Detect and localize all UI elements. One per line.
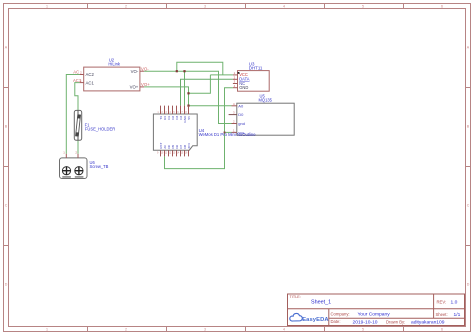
U3 pin DATA stub: [233, 78, 238, 80]
svg-text:Drawn By:: Drawn By:: [386, 319, 405, 324]
svg-text:2: 2: [125, 328, 127, 332]
U4 bottom pin numbers: [157, 152, 188, 155]
svg-text:EasyEDA: EasyEDA: [302, 317, 329, 323]
svg-text:Sheet:: Sheet:: [436, 312, 448, 317]
wire VO+ to MCU 5V pin: [144, 87, 188, 106]
svg-text:5: 5: [362, 328, 364, 332]
svg-text:C: C: [5, 204, 8, 208]
U5 pin D0 stub: [229, 114, 237, 116]
svg-text:6: 6: [441, 5, 443, 9]
svg-text:Your Company: Your Company: [358, 312, 391, 318]
svg-text:VO-: VO-: [141, 66, 149, 71]
wire elevated VO- branch to DHT11 VCC: [177, 62, 223, 75]
U5 pin A0 stub: [232, 105, 237, 107]
junction dot MQ135 vcc branch: [224, 132, 226, 134]
wire branch to MQ135 vcc: [225, 131, 232, 133]
fuse F1 holder body: [74, 110, 81, 140]
U4 bottom pin names: [159, 143, 191, 149]
svg-text:3V3: 3V3: [187, 143, 191, 149]
svg-text:3: 3: [204, 328, 206, 332]
svg-text:2019-10-10: 2019-10-10: [353, 319, 378, 325]
wire DHT11 VCC feed: [210, 74, 233, 76]
svg-text:A0: A0: [238, 103, 244, 108]
F1 fuse element slanted body: [75, 115, 80, 136]
wire VO- down to MCU GND pin: [184, 71, 186, 105]
svg-text:2: 2: [125, 5, 127, 9]
svg-text:GND: GND: [239, 85, 248, 90]
F1 fuse element bottom cap: [75, 132, 78, 136]
U6 bottom slot right: [75, 176, 84, 177]
svg-text:HiLink: HiLink: [108, 62, 121, 67]
junction dot MCU 5V pin: [187, 105, 189, 107]
power module U2 HiLink body: [84, 67, 140, 91]
U3 pin-1 dot: [238, 72, 240, 74]
junction dot VO+ branch: [187, 92, 189, 94]
U5 pin vcc stub: [232, 131, 237, 133]
svg-text:1: 1: [46, 328, 48, 332]
U4 top pin numbers: [157, 111, 187, 114]
U4 top pin stubs: [161, 106, 189, 114]
U3 pin VCC stub: [233, 74, 238, 76]
U6 screw head right: [75, 167, 83, 175]
wire DHT11 DATA to MCU D4: [181, 79, 233, 105]
svg-text:REV:: REV:: [437, 299, 447, 304]
svg-text:DHT11: DHT11: [249, 65, 263, 70]
U3 pin GND stub: [233, 87, 238, 89]
svg-text:VO+: VO+: [141, 82, 150, 87]
frame column numbers bottom: [46, 328, 443, 332]
F1 fuse element top cap: [77, 115, 80, 119]
U5 pin numbers: [233, 102, 235, 133]
svg-text:gnd: gnd: [238, 121, 245, 126]
svg-text:Company:: Company:: [331, 311, 350, 316]
F1 fuse element bottom lead: [77, 135, 79, 140]
sensor U3 DHT11 body: [238, 71, 270, 92]
svg-text:1: 1: [46, 5, 48, 9]
svg-text:4: 4: [283, 5, 285, 9]
svg-text:AC1: AC1: [86, 80, 95, 85]
svg-text:TITLE:: TITLE:: [290, 295, 301, 299]
EasyEDA logo cloud: [290, 313, 303, 321]
svg-text:FUSE_HOLDER: FUSE_HOLDER: [85, 126, 115, 131]
svg-text:VO-: VO-: [131, 69, 139, 74]
wire junction to MQ135 A0: [189, 105, 232, 107]
svg-text:Date:: Date:: [331, 319, 341, 324]
svg-text:4: 4: [283, 328, 285, 332]
svg-text:1.0: 1.0: [451, 300, 458, 306]
frame row letters right: [467, 46, 470, 287]
svg-text:D0: D0: [238, 112, 244, 117]
frame row letters left: [5, 46, 8, 287]
svg-text:adityakaran109: adityakaran109: [411, 320, 445, 326]
svg-text:D: D: [467, 283, 470, 287]
wire AC1 to fuse: [75, 83, 80, 111]
svg-text:Screw_TB: Screw_TB: [90, 164, 109, 169]
U6 pin 2 stub: [77, 154, 79, 158]
svg-text:VO+: VO+: [130, 85, 139, 90]
junction dot VO- 2: [183, 70, 185, 72]
junction dot VO- 1: [176, 70, 178, 72]
svg-text:1/1: 1/1: [454, 312, 461, 318]
wire DHT11 GND down: [165, 88, 233, 169]
U4 bottom pin stubs: [161, 150, 189, 156]
svg-text:6: 6: [441, 328, 443, 332]
svg-text:C: C: [467, 204, 470, 208]
svg-text:Sheet_1: Sheet_1: [311, 300, 331, 306]
U3 pin NC stub: [233, 83, 238, 85]
U2 pin AC1 stub: [80, 82, 84, 84]
title block outline: [288, 294, 465, 326]
wire fuse to terminal: [77, 140, 79, 154]
frame column numbers top: [46, 5, 443, 9]
U2 pin VO+ stub: [140, 86, 144, 88]
svg-text:MQ135: MQ135: [259, 97, 273, 102]
U6 screw head left: [62, 167, 70, 175]
svg-text:D: D: [5, 283, 8, 287]
wire AC2 horizontal: [66, 75, 79, 154]
U5 pin gnd stub: [232, 123, 237, 125]
svg-text:3: 3: [204, 5, 206, 9]
svg-text:WeMos D1 Pro Mini NoOutline: WeMos D1 Pro Mini NoOutline: [199, 132, 257, 137]
sensor U5 MQ135 body: [237, 103, 294, 135]
U2 pin VO- stub: [140, 70, 144, 72]
U4 top pin names: [159, 115, 191, 123]
wire VO+ branch up to VCC feed: [189, 75, 211, 93]
U2 pin AC2 stub: [80, 74, 84, 76]
U3 pin numbers: [234, 71, 236, 88]
F1 fuse element top lead: [77, 110, 79, 115]
svg-text:AC2: AC2: [86, 72, 95, 77]
wire VO- to MQ135 gnd: [144, 71, 231, 123]
svg-text:5: 5: [362, 5, 364, 9]
U6 bottom slot left: [62, 176, 71, 177]
U6 pin 1 stub: [65, 154, 67, 158]
terminal U6 Screw_TB body: [60, 158, 88, 179]
svg-text:AC: AC: [73, 70, 79, 75]
MCU U4 WeMos D1 body: [153, 114, 197, 150]
